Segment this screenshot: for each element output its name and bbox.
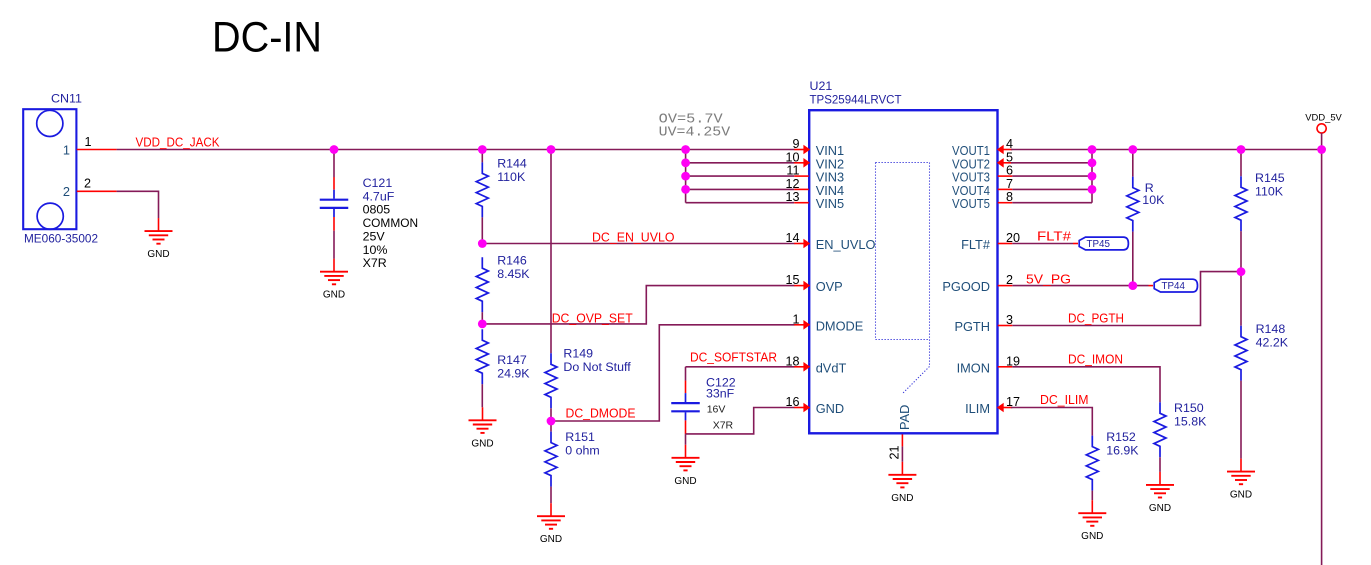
svg-text:Do Not Stuff: Do Not Stuff [563,360,631,374]
svg-text:R152: R152 [1106,430,1136,444]
svg-text:1: 1 [85,135,92,149]
U21 pin 1 DMODE [792,312,863,333]
svg-text:DC-IN: DC-IN [212,15,322,62]
wire CN11 pin2 to ground [117,191,159,218]
svg-text:3: 3 [1006,313,1013,327]
wire VDD_DC_JACK main horizontal [117,149,795,151]
resistor R148 label [1256,322,1289,349]
power symbol VDD_5V [1305,111,1342,133]
svg-text:18: 18 [785,354,799,368]
junction at R144 [478,145,487,154]
U21 pin 5 VOUT2 [952,150,1013,171]
svg-text:110K: 110K [497,170,526,184]
svg-text:DC_ILIM: DC_ILIM [1040,392,1089,407]
svg-text:dVdT: dVdT [816,360,847,375]
svg-text:ILIM: ILIM [965,401,990,416]
svg-text:GND: GND [816,401,844,416]
junction DC_DMODE node [547,417,556,426]
svg-text:R148: R148 [1256,322,1286,336]
svg-text:2: 2 [63,184,70,199]
wire DC_EN_UVLO [482,243,794,245]
wire R148 bottom lead [1240,381,1242,459]
resistor R151 symbol [545,432,557,487]
resistor R150 symbol [1154,402,1166,457]
svg-text:16.9K: 16.9K [1106,443,1139,457]
svg-text:R147: R147 [497,353,527,367]
U21 pin 14 EN_UVLO [785,231,875,252]
wire VOUT4 branch [1012,188,1092,190]
svg-text:GND: GND [1149,503,1171,514]
svg-text:21: 21 [888,445,902,459]
junction VIN bus 1 [681,145,690,154]
U21 pin 19 IMON [957,354,1020,375]
junction VOUT bus 1 [1088,145,1097,154]
svg-text:6: 6 [1006,164,1013,178]
svg-text:OVP: OVP [816,279,843,294]
svg-text:R150: R150 [1174,401,1204,415]
wire R147 bottom lead [481,384,483,407]
wire VIN bus vertical [685,150,687,203]
resistor R147 label [497,353,530,380]
resistor R148 symbol [1235,326,1247,381]
svg-text:5V_PG: 5V_PG [1026,271,1071,286]
svg-text:R149: R149 [563,347,593,361]
svg-text:4.7uF: 4.7uF [363,189,395,203]
U21 pin 18 dVdT [785,354,846,375]
resistor R152 label [1106,430,1139,457]
svg-text:DMODE: DMODE [816,318,864,333]
wire 5V_PG to TP44 [1012,285,1153,287]
annotation OV/UV thresholds [659,111,731,140]
svg-text:GND: GND [147,249,169,260]
junction at C121 [330,145,339,154]
svg-text:2: 2 [1006,273,1013,287]
junction VOUT bus 3 [1088,172,1097,181]
svg-text:TP44: TP44 [1162,281,1186,292]
svg-text:7: 7 [1006,177,1013,191]
ground GND at R150 [1146,472,1174,514]
wire R145 top lead [1240,150,1242,177]
svg-text:9: 9 [792,137,799,151]
wire C122 bottom lead [685,434,687,445]
wire VIN4 branch [686,188,795,190]
svg-text:VDD_5V: VDD_5V [1305,111,1342,122]
capacitor C121 labels [363,176,419,270]
ground GND at pin 21 [888,462,916,504]
wire C121 bottom lead [333,231,335,259]
svg-text:VIN5: VIN5 [816,196,844,211]
U21 pin 8 VOUT5 [952,190,1013,211]
ground GND at C121 [320,259,348,301]
svg-text:R144: R144 [497,157,527,171]
resistor R145 label [1255,171,1285,198]
svg-text:UV=4.25V: UV=4.25V [659,125,731,141]
wire DC_SOFTSTAR [686,366,795,368]
wire vertical to R149 [550,150,552,354]
svg-text:PAD: PAD [897,405,912,430]
svg-text:VOUT5: VOUT5 [952,196,990,211]
wire C121 top lead [333,150,335,178]
svg-text:X7R: X7R [713,420,734,432]
junction VOUT bus 4 [1088,185,1097,194]
junction at R149 branch [547,145,556,154]
svg-text:C121: C121 [363,176,393,190]
junction at R147 top [478,320,487,329]
svg-text:15: 15 [785,273,799,287]
capacitor C122 symbol [671,381,700,435]
U21 pin 10 VIN2 [785,150,844,171]
resistor R144 label [497,157,527,184]
resistor R151 label [565,430,599,457]
svg-text:33nF: 33nF [706,387,735,401]
svg-text:1: 1 [63,142,70,157]
junction R 10K to 5V_PG [1128,281,1137,290]
ground GND at R151 [537,503,565,545]
wire VOUT3 branch [1012,175,1092,177]
svg-text:12: 12 [785,177,799,191]
testpoint TP45 [1079,237,1128,250]
wire R144 top lead [481,150,483,163]
wire VDD_5V vertical rail [1321,133,1323,565]
svg-text:24.9K: 24.9K [497,366,530,380]
wire VOUT2 branch [1011,162,1092,164]
wire VIN2 branch [686,162,795,164]
junction VIN bus 3 [681,172,690,181]
svg-text:0 ohm: 0 ohm [565,443,599,457]
junction at VDD_5V rail [1317,145,1326,154]
svg-text:DC_DMODE: DC_DMODE [566,405,636,420]
resistor R145 symbol [1235,176,1247,231]
resistor R symbol [1127,177,1139,232]
U21 pin 15 OVP [785,273,842,294]
junction VIN bus 4 [681,185,690,194]
IC U21 TPS25944LRVCT body [809,110,997,433]
wire R145 bottom to R148 [1240,231,1242,326]
svg-text:X7R: X7R [363,256,387,270]
U21 pin 9 VIN1 [792,137,844,158]
wire DC_PGTH [1012,272,1241,326]
svg-text:GND: GND [891,493,913,504]
svg-text:GND: GND [1081,531,1103,542]
svg-text:PGTH: PGTH [954,319,990,334]
svg-text:COMMON: COMMON [363,216,419,230]
svg-text:14: 14 [785,231,799,245]
wire R 10K top lead [1132,150,1134,177]
svg-text:DC_IMON: DC_IMON [1068,352,1123,367]
svg-text:42.2K: 42.2K [1256,336,1289,350]
svg-text:DC_OVP_SET: DC_OVP_SET [552,310,633,325]
wire R146 bottom to R147 [481,312,483,324]
svg-text:TP45: TP45 [1087,239,1111,250]
junction at R146 top [478,239,487,248]
svg-text:R145: R145 [1255,171,1285,185]
svg-text:25V: 25V [363,229,386,243]
U21 thermal pad outline (dotted) [876,163,930,394]
svg-text:15.8K: 15.8K [1174,414,1207,428]
svg-text:GND: GND [674,476,696,487]
svg-text:DC_EN_UVLO: DC_EN_UVLO [592,230,675,245]
connector CN11 pin 1 stub [77,149,117,151]
svg-text:8: 8 [1006,190,1013,204]
junction at R145 top [1237,145,1246,154]
wire DC_DMODE [551,325,795,421]
ground GND at R148 [1227,459,1255,501]
svg-text:GND: GND [540,534,562,545]
wire R150 bottom lead [1159,457,1161,472]
svg-text:1: 1 [792,312,799,326]
svg-text:16V: 16V [707,404,726,416]
ground GND at CN11 [145,218,173,260]
svg-text:FLT#: FLT# [1037,229,1072,244]
U21 pin 11 VIN3 [786,164,844,185]
junction VIN bus 2 [681,158,690,167]
svg-text:GND: GND [323,290,345,301]
svg-text:CN11: CN11 [51,91,82,105]
U21 pin 6 VOUT3 [952,164,1013,185]
wire VOUT1 to VDD_5V rail [1011,149,1322,151]
svg-text:13: 13 [785,190,799,204]
svg-text:R151: R151 [565,430,595,444]
wire VOUT bus vertical [1091,150,1093,203]
resistor R152 symbol [1086,436,1098,491]
svg-text:U21: U21 [810,79,833,93]
resistor R146 label [497,253,530,280]
svg-text:R146: R146 [497,253,527,267]
svg-text:DC_SOFTSTAR: DC_SOFTSTAR [690,350,777,365]
svg-text:2: 2 [84,177,91,191]
U21 pin 12 VIN4 [785,177,844,198]
svg-text:VDD_DC_JACK: VDD_DC_JACK [136,135,220,150]
svg-text:EN_UVLO: EN_UVLO [816,237,876,252]
svg-text:ME060-35002: ME060-35002 [24,232,98,246]
resistor R144 symbol [476,162,488,217]
U21 pin 16 GND [785,395,844,416]
svg-text:0805: 0805 [363,203,391,217]
wire DC_IMON to R150 [1012,367,1160,403]
junction at R 10K top [1128,145,1137,154]
U21 pin 2 PGOOD [942,273,1013,294]
svg-text:16: 16 [785,395,799,409]
wire VIN3 branch [686,175,795,177]
svg-text:GND: GND [1230,490,1252,501]
wire FLT# to TP45 [1012,243,1078,245]
U21 pin 21 stub [901,434,903,461]
connector CN11 pin 2 stub [77,190,117,192]
svg-text:110K: 110K [1255,184,1284,198]
resistor R150 label [1174,401,1207,428]
wire DC_ILIM to R152 [1011,408,1092,436]
svg-text:FLT#: FLT# [961,237,991,252]
wire R 10K bottom lead [1132,232,1134,286]
ground GND at R152 [1078,500,1106,542]
svg-text:11: 11 [786,164,799,178]
resistor R149 symbol [545,353,557,408]
svg-text:TPS25944LRVCT: TPS25944LRVCT [810,92,902,106]
svg-text:8.45K: 8.45K [497,267,530,281]
U21 pin 4 VOUT1 [952,137,1013,158]
U21 pin 3 PGTH [954,313,1013,334]
capacitor C121 symbol [320,177,349,231]
capacitor C122 labels [706,375,736,431]
svg-text:10: 10 [785,150,799,164]
wire R152 bottom lead [1091,491,1093,501]
wire R144 bottom to R146 [481,217,483,243]
wire R151 top lead [550,421,552,432]
svg-text:IMON: IMON [957,360,990,375]
wire VIN5 branch [686,202,795,204]
svg-text:10%: 10% [363,243,388,257]
U21 pin 20 FLT# [961,231,1020,252]
wire VOUT5 branch [1012,202,1092,204]
resistor R146 symbol [476,257,488,312]
svg-text:DC_PGTH: DC_PGTH [1068,311,1124,326]
junction PGTH divider node [1237,267,1246,276]
svg-text:GND: GND [471,438,493,449]
junction VOUT bus 2 [1088,158,1097,167]
wire R149 bottom lead [550,408,552,421]
wire R151 bottom lead [550,487,552,504]
resistor R147 symbol [476,329,488,384]
wire C122 top lead [685,367,687,381]
svg-text:PGOOD: PGOOD [942,279,990,294]
U21 pin 7 VOUT4 [952,177,1013,198]
ground GND at C122 [672,445,700,487]
svg-text:10K: 10K [1142,193,1165,207]
ground GND at R147 [469,407,497,449]
connector CN11 body [23,109,76,229]
wire GND pin 16 net [686,408,795,434]
resistor R label [1142,181,1165,207]
resistor R149 label [563,347,631,374]
testpoint TP44 [1154,279,1197,292]
U21 pin 13 VIN5 [785,190,844,211]
wire DC_OVP_SET [482,286,794,324]
U21 pin 17 ILIM [965,395,1020,416]
